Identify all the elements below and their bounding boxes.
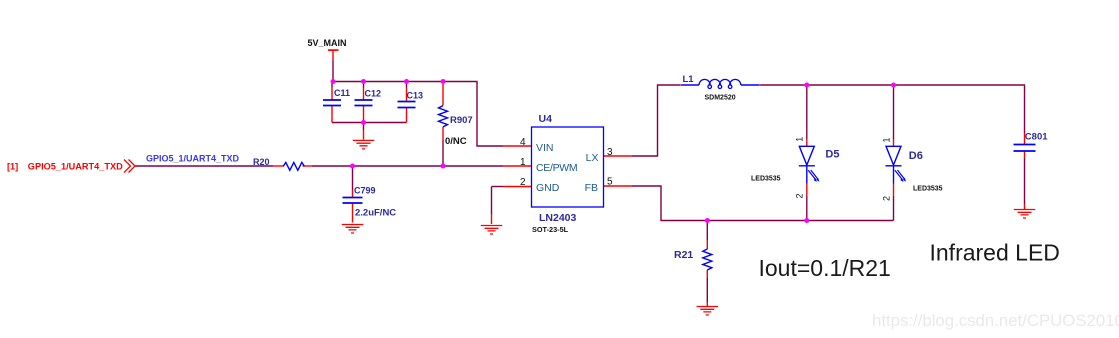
svg-text:GPIO5_1/UART4_TXD: GPIO5_1/UART4_TXD [146,154,240,164]
svg-text:5: 5 [607,177,613,188]
svg-text:1: 1 [882,137,892,142]
svg-text:https://blog.csdn.net/CPUOS201: https://blog.csdn.net/CPUOS2010 [872,311,1119,330]
svg-text:Infrared LED: Infrared LED [930,239,1060,265]
svg-text:FB: FB [585,182,598,194]
svg-text:LX: LX [586,152,599,164]
svg-text:C13: C13 [407,91,424,101]
svg-text:1: 1 [795,137,805,142]
svg-text:LN2403: LN2403 [539,212,577,224]
svg-text:C801: C801 [1025,132,1048,143]
svg-text:2: 2 [882,196,892,201]
svg-text:C12: C12 [365,89,382,99]
svg-text:Iout=0.1/R21: Iout=0.1/R21 [759,255,891,281]
svg-text:[1]: [1] [7,162,18,172]
svg-text:GPIO5_1/UART4_TXD: GPIO5_1/UART4_TXD [28,162,123,172]
svg-text:2: 2 [795,193,805,198]
svg-text:U4: U4 [539,113,553,125]
svg-text:D5: D5 [825,149,839,161]
svg-text:LED3535: LED3535 [751,175,781,182]
svg-text:1: 1 [520,157,526,168]
svg-text:4: 4 [520,137,526,148]
svg-text:2: 2 [520,177,526,188]
svg-text:0/NC: 0/NC [445,136,467,147]
svg-text:C11: C11 [334,88,350,98]
svg-text:D6: D6 [909,150,923,162]
svg-text:VIN: VIN [536,142,554,154]
svg-text:C799: C799 [354,186,376,196]
svg-text:CE/PWM: CE/PWM [536,162,577,174]
svg-text:GND: GND [536,182,560,194]
svg-text:LED3535: LED3535 [913,186,943,193]
svg-text:L1: L1 [683,74,695,85]
svg-text:R21: R21 [674,249,693,261]
svg-text:2.2uF/NC: 2.2uF/NC [355,208,396,219]
svg-text:3: 3 [607,147,613,158]
svg-text:5V_MAIN: 5V_MAIN [307,38,346,48]
svg-text:R20: R20 [253,157,270,167]
svg-text:R907: R907 [450,115,473,126]
svg-text:SDM2520: SDM2520 [705,95,736,102]
svg-text:SOT-23-5L: SOT-23-5L [532,225,569,234]
